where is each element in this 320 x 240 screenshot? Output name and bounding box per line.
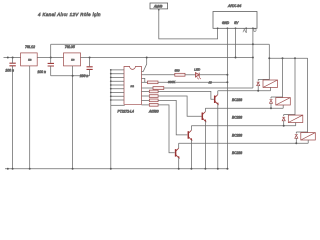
svg-text:PT2272-L4: PT2272-L4	[118, 109, 134, 113]
wire relay3 bottom	[191, 125, 295, 127]
node input dot	[7, 57, 9, 59]
wire ARX data pin down V3	[252, 28, 254, 88]
wire antenna	[159, 9, 218, 39]
resistor R7	[153, 87, 164, 90]
wire pin12 row D to T2	[142, 95, 150, 97]
wire IC left address bus	[110, 70, 112, 169]
transistor T4 BC238	[175, 149, 177, 157]
diode D3	[270, 100, 273, 104]
wire 78L05 gnd	[72, 66, 74, 169]
svg-text:BC238: BC238	[232, 98, 242, 102]
svg-text:5V: 5V	[234, 21, 239, 25]
svg-text:100 n: 100 n	[5, 69, 14, 73]
svg-text:300K: 300K	[168, 80, 176, 84]
resistor R4	[149, 104, 158, 107]
resistor R1	[149, 90, 158, 93]
left pin stubs	[111, 70, 124, 100]
node pins A0-A7 dots	[110, 69, 112, 101]
wire Vcc pin18 diagonal	[142, 58, 147, 72]
wire T1 collector	[217, 91, 219, 95]
wire VT row pin17	[142, 74, 175, 76]
svg-text:BC238: BC238	[232, 133, 242, 137]
relay K3	[294, 58, 296, 115]
capacitor C3 100n	[89, 58, 91, 67]
wire relay1 bottom	[218, 90, 271, 92]
pin D glyph	[254, 29, 256, 32]
svg-text:LED: LED	[194, 67, 201, 71]
wire T1 emitter	[217, 104, 219, 169]
svg-text:BC238: BC238	[232, 151, 242, 155]
regulator IC2 78L12	[21, 53, 38, 66]
diode D5	[295, 135, 298, 139]
LED D1	[196, 73, 201, 80]
diode D4	[282, 117, 285, 121]
wire 5V rail	[81, 57, 253, 59]
wire pin11 row E to T3	[142, 99, 150, 101]
wire relay2 bottom	[205, 107, 283, 109]
svg-text:100 n: 100 n	[80, 74, 89, 78]
svg-text:4 Kanal Alıcı 12V Röle için: 4 Kanal Alıcı 12V Röle için	[38, 12, 101, 17]
transistor T3 BC238	[187, 131, 189, 139]
wire 12V rail H1	[51, 43, 270, 45]
svg-text:560: 560	[175, 68, 180, 72]
wire pin13 row C to T1	[142, 90, 150, 92]
node ground dots	[7, 168, 229, 170]
svg-text:A0580: A0580	[148, 109, 159, 113]
relay K1	[258, 79, 269, 81]
wire bus under IC	[111, 104, 125, 106]
wire input 12V	[4, 57, 21, 59]
wire ARX gnd column V1	[226, 28, 228, 169]
wire ground rail	[5, 168, 229, 170]
IC1 PT2272-L4	[124, 67, 142, 105]
svg-text:GND: GND	[222, 21, 230, 25]
resistor R2	[149, 95, 158, 98]
regulator IC3 78L05	[64, 53, 81, 66]
svg-text:ARX-34: ARX-34	[227, 4, 241, 8]
pin antenna lambda glyph	[243, 29, 246, 33]
node 12V tap	[50, 57, 52, 59]
resistor R5 560	[175, 73, 185, 76]
resistor R3	[149, 99, 158, 102]
pin dots ARX	[217, 27, 254, 29]
node gnd link	[72, 75, 74, 77]
svg-text:78L12: 78L12	[25, 45, 35, 49]
wire cap2/cap3 gnd link	[51, 75, 90, 77]
transistor T2 BC238	[201, 113, 203, 121]
wire 78L12 out to 78L05 in	[37, 57, 63, 59]
svg-text:AM49: AM49	[153, 4, 163, 8]
antenna label box	[150, 3, 168, 9]
node cap1 top junction	[12, 57, 14, 59]
wire 78L12 gnd	[29, 66, 31, 169]
node cap3 junction	[89, 57, 91, 59]
resistor R6 300K row A	[142, 81, 148, 83]
wire relay4 bottom	[179, 142, 309, 144]
svg-text:78L05: 78L05	[65, 45, 75, 49]
wire pin10 row F to T4	[142, 104, 150, 106]
transistor T1 BC238	[214, 96, 216, 104]
relay K2	[282, 58, 284, 97]
svg-text:BC238: BC238	[232, 116, 242, 120]
wire ARX 5V pin	[235, 28, 237, 57]
wire relay rail H2	[269, 57, 307, 59]
module ARX-34	[213, 12, 257, 29]
wire pin14 DIN row B	[142, 87, 154, 89]
wire relay supply corner	[268, 44, 270, 80]
capacitor C1 100n	[9, 63, 15, 66]
wire 12V rail riser	[50, 44, 52, 57]
relay K4	[307, 58, 309, 132]
svg-text:100 n: 100 n	[37, 70, 46, 74]
diode D2	[257, 82, 260, 86]
capacitor C2 100n	[50, 58, 52, 63]
wire pin16 stub	[142, 78, 145, 82]
